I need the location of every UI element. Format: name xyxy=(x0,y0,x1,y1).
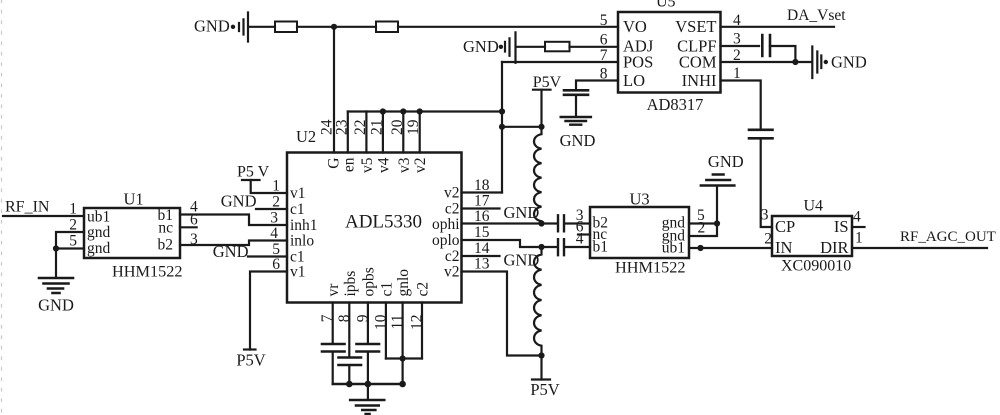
svg-text:v2: v2 xyxy=(444,264,460,281)
U5 pin names left VO ADJ POS LO xyxy=(623,17,654,90)
svg-text:POS: POS xyxy=(623,53,653,72)
svg-text:CP: CP xyxy=(775,217,795,236)
power P5_V label for U2 pin 1 xyxy=(237,164,270,181)
svg-text:ub1: ub1 xyxy=(87,209,110,226)
svg-text:19: 19 xyxy=(405,119,422,135)
wire U5 pin 4 VSET to DA_Vset xyxy=(721,26,835,28)
node dots on top pin bus xyxy=(380,108,386,114)
svg-text:XC090010: XC090010 xyxy=(781,258,851,275)
svg-text:COM: COM xyxy=(679,53,717,72)
svg-text:U1: U1 xyxy=(124,190,144,209)
capacitor C coupling ophi to U3 b2 xyxy=(558,215,564,231)
svg-text:GND: GND xyxy=(194,17,230,36)
wire C9 to gnd bus xyxy=(367,352,369,384)
wire cap to ground xyxy=(575,95,577,117)
capacitor C on INHI line xyxy=(749,130,773,139)
node dot U3 gnd tie xyxy=(714,220,720,226)
svg-text:U2: U2 xyxy=(296,127,316,146)
svg-text:21: 21 xyxy=(368,120,385,136)
svg-text:GND: GND xyxy=(831,53,867,72)
svg-text:GND: GND xyxy=(463,37,499,56)
wire U5 pin 7 POS to rail xyxy=(502,61,618,63)
U1 pin names right b1 nc b2 xyxy=(158,207,174,254)
svg-text:DA_Vset: DA_Vset xyxy=(787,7,846,24)
wire U2 pin 16 ophi to coupling cap xyxy=(462,222,557,224)
svg-text:2: 2 xyxy=(272,194,280,211)
svg-text:14: 14 xyxy=(474,240,490,257)
node dot rail / P5V branch xyxy=(499,124,505,130)
power P5V (mid) xyxy=(533,74,562,127)
wire stub U2 pin 17 c2 xyxy=(462,207,500,209)
svg-text:P5 V: P5 V xyxy=(237,164,270,181)
svg-text:b1: b1 xyxy=(593,239,609,256)
svg-text:c1: c1 xyxy=(378,282,395,297)
U2 right pin names v2 c2 ophi oplo c2 v2 xyxy=(432,185,460,281)
svg-text:5: 5 xyxy=(69,233,77,250)
wire stub U3 pin 6 nc xyxy=(578,233,590,235)
svg-text:U4: U4 xyxy=(804,198,824,215)
svg-text:GND: GND xyxy=(708,152,744,171)
wire cap to U3 pin 3 b2 xyxy=(565,222,590,224)
svg-text:nc: nc xyxy=(158,220,173,237)
svg-text:v2: v2 xyxy=(412,158,429,174)
wire U1 pin 2 gnd xyxy=(56,232,84,249)
capacitor C at U5 LO xyxy=(564,90,588,95)
node dot on ub1 wire xyxy=(697,245,703,251)
wire U1 pin 5 gnd xyxy=(56,247,84,249)
svg-text:3: 3 xyxy=(761,207,769,224)
wire top node down to U2 pin 24 G xyxy=(333,27,335,153)
resistor R2 xyxy=(376,22,398,33)
svg-text:3: 3 xyxy=(190,231,198,248)
wire CLPF cap to COM node xyxy=(770,46,795,62)
svg-text:IN: IN xyxy=(775,238,792,257)
wire stub U2 pin 14 c2 xyxy=(462,255,500,257)
svg-text:2: 2 xyxy=(764,231,772,248)
svg-text:v2: v2 xyxy=(444,185,460,202)
wire U4 pin 1 DIR to RF_AGC_OUT xyxy=(852,247,987,249)
wire U1 pin 4 b1 to U2 pin 3 inh1 xyxy=(180,215,287,226)
svg-text:1: 1 xyxy=(69,201,77,218)
node dot U1 gnd tie xyxy=(53,245,59,251)
U3 pin names left b2 nc b1 xyxy=(593,215,609,256)
svg-text:ipbs: ipbs xyxy=(342,271,359,297)
svg-text:c2: c2 xyxy=(445,248,460,265)
svg-text:v1: v1 xyxy=(290,185,306,202)
svg-text:HHM1522: HHM1522 xyxy=(112,262,183,281)
svg-text:HHM1522: HHM1522 xyxy=(615,258,686,277)
wire C8 to gnd bus xyxy=(348,366,350,385)
U1 pin names left ub1 gnd gnd xyxy=(87,209,111,258)
svg-text:opbs: opbs xyxy=(360,267,377,296)
U2 right pin numbers 18 17 16 15 14 13 xyxy=(474,177,490,273)
node dot oplo / L2 xyxy=(538,244,544,250)
svg-text:ophi: ophi xyxy=(432,216,460,233)
svg-text:VO: VO xyxy=(623,17,647,36)
svg-text:b2: b2 xyxy=(158,237,174,254)
svg-text:P5V: P5V xyxy=(236,351,265,370)
wire U5 pin 3 CLPF to cap xyxy=(721,45,760,47)
capacitor C9 on pin 9 xyxy=(357,344,380,352)
wire U3 ub1 to U4 pin 2 IN xyxy=(689,247,772,249)
svg-text:gnd: gnd xyxy=(87,240,111,257)
svg-text:U3: U3 xyxy=(630,190,650,209)
svg-text:17: 17 xyxy=(474,193,490,210)
node junction at top rail / pin24 xyxy=(331,24,337,30)
svg-text:en: en xyxy=(340,157,357,172)
wire U2 pin 12 c2 down xyxy=(421,303,423,359)
svg-text:gnlo: gnlo xyxy=(395,269,412,297)
node dot COM junction xyxy=(792,59,798,65)
node dot ophi / L1 xyxy=(538,220,544,226)
svg-text:4: 4 xyxy=(576,231,584,248)
ground symbol (inverted) above U3 xyxy=(701,152,744,186)
svg-text:VSET: VSET xyxy=(675,17,716,36)
wire ground bus under U2 xyxy=(333,383,403,385)
wire U3 pin 2 gnd xyxy=(689,224,717,237)
svg-text:INHI: INHI xyxy=(682,71,717,90)
log detector U5 AD8317 body xyxy=(618,0,721,114)
svg-text:DIR: DIR xyxy=(820,238,848,257)
wire U2 pin 6 v1 to P5V xyxy=(250,272,287,350)
wire P5_V to U2 pin 1 v1 xyxy=(251,180,287,193)
svg-text:inh1: inh1 xyxy=(290,217,318,234)
node dot L2 / P5V xyxy=(538,352,544,358)
wire U5 pin 8 LO to cap xyxy=(576,81,618,91)
svg-text:GND: GND xyxy=(38,296,74,315)
wire U2 pin 8 ipbs down xyxy=(348,303,350,358)
amplifier U1 HHM1522 body xyxy=(84,190,183,281)
svg-text:13: 13 xyxy=(474,256,490,273)
svg-text:22: 22 xyxy=(352,120,369,136)
U3 pin names right gnd gnd ub1 xyxy=(662,215,686,257)
wire INHI cap down to U4 CP xyxy=(761,139,772,227)
svg-text:ADL5330: ADL5330 xyxy=(345,212,422,233)
ground symbol below U2 xyxy=(350,384,384,414)
svg-text:c2: c2 xyxy=(415,282,432,297)
resistor R1 xyxy=(275,22,297,33)
capacitor C7 on pin 7 xyxy=(322,344,345,352)
svg-text:GND: GND xyxy=(221,192,257,211)
svg-text:c2: c2 xyxy=(445,201,460,218)
node dot rail / top pin bus xyxy=(499,108,505,114)
svg-text:U5: U5 xyxy=(656,0,676,11)
amplifier U3 HHM1522 body xyxy=(590,190,689,277)
svg-text:2: 2 xyxy=(698,220,706,237)
capacitor C coupling oplo to U3 b1 xyxy=(558,239,564,255)
wire cap to U3 pin 4 b1 xyxy=(565,246,590,248)
svg-text:AD8317: AD8317 xyxy=(647,95,704,114)
ground symbol below U1 xyxy=(38,278,74,315)
vertical rail POS to U2 pin 18 xyxy=(501,62,503,193)
wire top pin bus to vertical rail xyxy=(348,110,502,112)
wire U2 pin 15 oplo jog to coupling cap xyxy=(462,240,557,247)
U2 left pin names v1 c1 inhi inlo c1 v1 xyxy=(290,185,318,281)
wire U2 pin 11 gnlo down xyxy=(402,303,404,385)
svg-text:v4: v4 xyxy=(375,157,392,173)
wire gnd to R1 xyxy=(249,26,275,28)
svg-text:RF_IN: RF_IN xyxy=(5,199,50,216)
svg-text:1: 1 xyxy=(855,230,863,247)
svg-text:LO: LO xyxy=(623,71,645,90)
svg-text:15: 15 xyxy=(474,224,490,241)
inductor L1 choke to ophi xyxy=(534,127,542,224)
capacitor C8 on pin 8 xyxy=(339,358,362,366)
wire C7 to gnd bus xyxy=(332,352,334,384)
svg-text:23: 23 xyxy=(333,119,350,135)
page border dashed left edge xyxy=(1,0,3,415)
wire U2 pin 10 c1 down xyxy=(385,303,387,359)
wire U2 pin 13 v2 to P5V riser xyxy=(462,272,542,356)
svg-text:1: 1 xyxy=(272,178,280,195)
wire gnd tie up to ground xyxy=(716,186,718,224)
U5 right pin numbers 4 3 2 1 xyxy=(733,12,741,82)
wire pins 10-11-12 tie xyxy=(386,357,422,359)
svg-text:P5V: P5V xyxy=(533,74,562,91)
wire R1 to R2 xyxy=(297,26,376,28)
svg-text:ub1: ub1 xyxy=(662,240,685,257)
svg-text:GND: GND xyxy=(560,131,596,150)
wire U2 pin 7 vr down xyxy=(332,303,334,344)
comparator U4 XC090010 body xyxy=(772,198,852,275)
wire gnd to R3 xyxy=(516,46,545,48)
ground GND (sideways) at COM xyxy=(812,47,867,79)
node dot pin11 tie xyxy=(400,355,406,361)
wire U2 pin 18 v2 to rail xyxy=(462,191,503,193)
wire U5 pin 2 COM to ground xyxy=(721,61,811,63)
U4 pin names CP IN IS DIR xyxy=(775,217,849,257)
wire U1 pin 3 b2 to U2 pin 4 inlo xyxy=(180,241,287,246)
svg-text:2: 2 xyxy=(69,217,77,234)
inductor L2 choke to oplo xyxy=(534,247,542,356)
power P5V symbol below U2 pin6 xyxy=(236,350,265,370)
wire stub U4 pin 4 IS xyxy=(852,226,865,228)
resistor R3 xyxy=(545,42,570,52)
ground GND (top-left, sideways) xyxy=(194,13,248,42)
node dots on ground bus xyxy=(346,381,353,388)
wire GND stub U2 pin 5 c1 xyxy=(248,255,287,257)
power P5V (bottom right) xyxy=(530,356,559,400)
svg-text:IS: IS xyxy=(834,217,849,236)
svg-text:oplo: oplo xyxy=(432,232,460,249)
svg-text:v3: v3 xyxy=(396,157,413,173)
svg-text:4: 4 xyxy=(853,209,861,226)
svg-text:c1: c1 xyxy=(290,201,305,218)
svg-text:inlo: inlo xyxy=(290,233,314,250)
svg-text:5: 5 xyxy=(600,12,608,29)
node dot P5V / L1 xyxy=(538,124,544,130)
wire RF_IN to U1 pin 1 xyxy=(3,215,84,217)
svg-text:gnd: gnd xyxy=(87,224,111,241)
ground symbol below LO cap xyxy=(560,117,596,150)
wire U3 pin 5 gnd xyxy=(689,222,717,224)
svg-text:v1: v1 xyxy=(290,264,306,281)
wire GND stub U2 pin 2 c1 xyxy=(256,208,287,210)
U5 left pin numbers 5 6 7 8 xyxy=(600,12,608,83)
U2 top pin stubs 23,22,21,20,19 xyxy=(348,112,420,153)
svg-text:vr: vr xyxy=(325,283,342,297)
wire R3 to U5 pin 6 ADJ xyxy=(570,46,619,48)
svg-text:RF_AGC_OUT: RF_AGC_OUT xyxy=(900,229,996,245)
svg-text:6: 6 xyxy=(190,212,198,229)
capacitor C at CLPF xyxy=(762,35,770,56)
svg-text:P5V: P5V xyxy=(530,380,559,399)
wire U5 pin 1 INHI down xyxy=(721,81,761,130)
op-amp U2 ADL5330 body xyxy=(287,127,462,303)
U5 pin names right VSET CLPF COM INHI xyxy=(675,17,717,90)
wire down to ground xyxy=(55,249,57,278)
wire R2 to U5 pin5 VO xyxy=(398,26,618,28)
wire U2 pin 9 opbs down xyxy=(367,303,369,344)
ground GND (sideways) at U5 ADJ xyxy=(463,32,516,63)
wire stub U1 pin 6 nc xyxy=(180,226,197,228)
svg-text:v5: v5 xyxy=(359,157,376,173)
svg-text:20: 20 xyxy=(389,119,406,135)
wire rail to P5V node xyxy=(502,126,542,128)
